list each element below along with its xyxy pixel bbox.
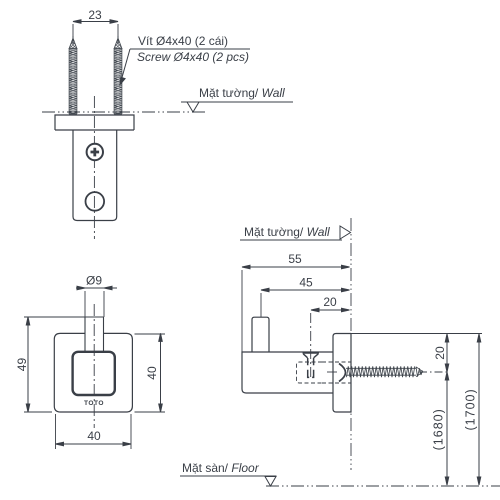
svg-text:49: 49 bbox=[15, 358, 29, 372]
dimension 40 (right) bbox=[135, 333, 166, 412]
svg-text:Mặt tường/ Wall: Mặt tường/ Wall bbox=[244, 225, 330, 239]
dimension 49 (left) bbox=[24, 317, 104, 412]
svg-text:Vít Ø4x40 (2 cái): Vít Ø4x40 (2 cái) bbox=[138, 34, 228, 48]
svg-text:Mặt sàn/ Floor: Mặt sàn/ Floor bbox=[182, 461, 260, 475]
screw head with phillips cross bbox=[87, 144, 103, 160]
extension line top (hook top level) bbox=[351, 333, 482, 335]
hook front face (thick square) bbox=[73, 352, 115, 395]
hook body (front) bbox=[73, 130, 117, 221]
svg-text:Mặt tường/ Wall: Mặt tường/ Wall bbox=[199, 86, 285, 100]
screw S1 (left) bbox=[69, 36, 77, 114]
square wall plate (front) bbox=[54, 333, 132, 412]
screw S2 (right) bbox=[114, 36, 122, 114]
wall datum triangle (right-pointing) bbox=[340, 226, 351, 239]
peg (front) bbox=[85, 317, 104, 352]
dimension 45 bbox=[261, 288, 350, 317]
mounting screw thread bbox=[346, 366, 423, 377]
hook body (side) bbox=[242, 352, 333, 393]
hook flange (front) bbox=[55, 115, 134, 130]
peg extension lines bbox=[85, 291, 104, 317]
wall line (dash-dot) bbox=[42, 111, 205, 113]
dimension 55 bbox=[242, 265, 350, 352]
svg-text:Screw Ø4x40 (2 pcs): Screw Ø4x40 (2 pcs) bbox=[137, 50, 249, 64]
dimension 20 (top) bbox=[311, 308, 350, 312]
set screw centerline bbox=[310, 313, 312, 379]
set screw (countersunk, pointing down) bbox=[303, 353, 320, 378]
dimension (1700) bbox=[477, 334, 481, 485]
dimension O9 line (outside arrows) bbox=[76, 286, 117, 290]
wall plate (side) bbox=[333, 334, 351, 413]
wall datum triangle bbox=[187, 102, 199, 112]
svg-text:(1700): (1700) bbox=[464, 388, 478, 430]
svg-text:Ø9: Ø9 bbox=[86, 274, 102, 288]
floor line (dash-dot) bbox=[266, 485, 500, 487]
svg-text:20: 20 bbox=[433, 346, 447, 360]
svg-text:23: 23 bbox=[88, 8, 102, 22]
svg-text:45: 45 bbox=[299, 276, 313, 290]
wall line vertical (dash-dot) bbox=[350, 218, 352, 470]
svg-text:20: 20 bbox=[323, 295, 337, 309]
peg (side) bbox=[252, 317, 269, 352]
mounting screw head (crescent) bbox=[339, 364, 346, 382]
svg-text:(1680): (1680) bbox=[432, 408, 446, 450]
lower circle (hook hole) bbox=[86, 192, 105, 211]
floor datum triangle bbox=[265, 477, 276, 487]
dimension 20 (vertical right) bbox=[445, 334, 449, 372]
screw label leader line bbox=[120, 49, 250, 85]
dimension (1680) bbox=[445, 372, 449, 485]
centerline vertical bbox=[93, 304, 95, 428]
hidden hole (dashed) bbox=[297, 362, 352, 383]
svg-text:40: 40 bbox=[145, 366, 159, 380]
dimension 40 (bottom) bbox=[56, 414, 132, 449]
mounting screw centerline bbox=[327, 371, 337, 373]
dimension 23 line bbox=[73, 20, 118, 36]
svg-text:55: 55 bbox=[288, 252, 302, 266]
svg-text:40: 40 bbox=[87, 429, 101, 443]
centerline bbox=[93, 96, 95, 239]
